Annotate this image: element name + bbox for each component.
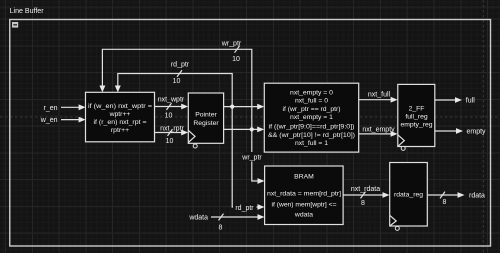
svg-text:rdata: rdata [469,192,485,199]
net rd_ptr feedback: second rail, vertical to BRAM [118,74,258,208]
svg-text:Pointer: Pointer [195,112,217,119]
svg-text:rdata_reg: rdata_reg [394,192,423,199]
bus slash rdata 8 [440,192,445,199]
svg-text:nxt_empty = 0: nxt_empty = 0 [290,90,333,97]
svg-text:rd_ptr: rd_ptr [171,62,190,69]
svg-text:nxt_full = 0: nxt_full = 0 [295,98,328,105]
arrow wr_ptr into pointer-logic top [99,86,105,93]
svg-text:full_reg: full_reg [405,113,428,120]
svg-text:r_en: r_en [43,105,57,112]
svg-text:wr_ptr: wr_ptr [241,155,262,162]
wire r_en input [61,106,80,108]
svg-text:10: 10 [166,138,174,145]
label wr_ptr (bottom, on vertical wire) [241,152,267,162]
svg-text:wdata: wdata [294,212,313,219]
arrow rdata [458,192,465,198]
svg-text:wptr++: wptr++ [109,111,131,118]
net wr_ptr feedback: top rail, verticals, BRAM stub [102,49,258,181]
svg-text:10: 10 [165,112,173,119]
svg-text:&& (wr_ptr[10] != rd_ptr[10]): && (wr_ptr[10] != rd_ptr[10]) [268,132,355,139]
register U2 Pointer Register [188,93,223,143]
svg-text:full: full [466,98,475,105]
svg-text:8: 8 [361,200,365,207]
svg-text:10: 10 [232,56,240,63]
arrow nxt_rdata into rdata_reg [383,192,390,198]
arrow rd_ptr into compare block [257,104,264,110]
svg-text:nxt_rdata = mem[rd_ptr]: nxt_rdata = mem[rd_ptr] [267,191,341,198]
svg-text:BRAM: BRAM [294,174,314,181]
svg-text:wdata: wdata [188,215,208,222]
arrow rd_ptr into BRAM [258,204,265,210]
arrow w_en [79,117,86,123]
arrow wdata into BRAM [258,214,265,220]
net nxt_rdata [343,194,383,196]
svg-text:rptr++: rptr++ [111,127,129,134]
arrow r_en [79,104,86,110]
svg-text:nxt_full = 1: nxt_full = 1 [295,140,328,147]
junction rd_ptr [230,105,234,109]
svg-text:8: 8 [443,199,447,206]
svg-text:nxt_full: nxt_full [368,91,391,98]
svg-text:nxt_wptr: nxt_wptr [158,97,185,104]
register U6 rdata_reg [390,163,428,227]
net rdata output [427,194,458,196]
svg-text:empty: empty [467,129,487,136]
svg-text:nxt_rptr: nxt_rptr [160,125,184,132]
arrow empty [456,128,463,134]
net empty output [435,130,457,132]
arrow rd_ptr into pointer-logic top [115,86,121,93]
bus slash wr_ptr 10 [235,46,240,53]
svg-text:empty_reg: empty_reg [400,121,432,128]
guide crosshair horizontal [0,116,500,118]
reset bubble (2_FF) [401,146,405,150]
net wdata input [211,216,258,218]
arrow nxt_wptr into pointer register [181,104,188,110]
guide crosshair vertical [482,0,484,253]
svg-text:if (w_en) nxt_wptr =: if (w_en) nxt_wptr = [88,103,152,110]
svg-text:nxt_empty: nxt_empty [362,126,395,133]
svg-text:nxt_empty = 1: nxt_empty = 1 [290,114,333,121]
svg-text:Line Buffer: Line Buffer [10,6,45,15]
svg-text:rd_ptr: rd_ptr [235,205,254,212]
net nxt_wptr [155,106,182,108]
net nxt_full [359,99,391,101]
net full output [435,99,456,101]
label rd_ptr (bottom, on wire to BRAM) [233,203,257,212]
collapse icon [12,22,18,28]
junction wr_ptr [250,127,254,131]
arrow nxt_full into 2_FF [391,97,398,103]
block U1 pointer next-state logic [86,92,155,142]
net nxt_rptr [155,132,182,134]
bus slash rd_ptr 10 [177,70,182,77]
clock pin (Pointer Register) [188,130,195,142]
net nxt_empty [359,133,391,135]
arrow full [455,97,462,103]
svg-text:if (wr_ptr == rd_ptr): if (wr_ptr == rd_ptr) [283,106,341,113]
reset bubble (rdata_reg) [395,226,399,230]
svg-text:if ((wr_ptr[9:0]==rd_ptr[9:0]): if ((wr_ptr[9:0]==rd_ptr[9:0]) [269,124,355,131]
svg-text:Register: Register [193,120,219,127]
svg-text:2_FF: 2_FF [409,106,425,113]
svg-text:8: 8 [219,225,223,232]
bus slash wdata 8 [219,214,224,221]
bus slash nxt_rptr 10 [168,129,173,136]
arrow wr_ptr into BRAM [258,178,265,184]
register U4 2_FF full_reg empty_reg [398,84,435,146]
arrow wr_ptr into compare block [257,127,264,133]
clock pin (2_FF) [398,135,405,147]
svg-text:nxt_rdata: nxt_rdata [351,186,380,193]
svg-text:if (r_en) nxt_rpt =: if (r_en) nxt_rpt = [94,119,147,126]
reset bubble (Pointer Register) [193,144,197,148]
bus slash nxt_wptr 10 [167,103,172,110]
arrow nxt_rptr into pointer register [181,130,188,136]
svg-text:10: 10 [173,78,181,85]
arrow nxt_empty into 2_FF [391,131,398,137]
svg-text:w_en: w_en [40,117,58,124]
bus slash nxt_rdata 8 [361,192,366,199]
block U3 full/empty compare logic [264,83,358,152]
clock pin (rdata_reg) [390,215,397,226]
wire w_en input [61,119,80,121]
block U5 BRAM [265,166,344,225]
svg-text:if (wen) mem[wptr] <=: if (wen) mem[wptr] <= [272,202,337,209]
